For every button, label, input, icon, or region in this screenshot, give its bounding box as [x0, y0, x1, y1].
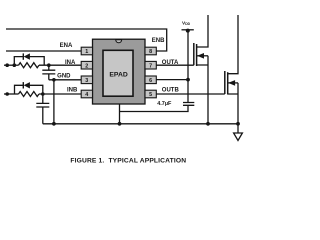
diode INB clamp triangle	[24, 82, 30, 88]
svg-text:GND: GND	[57, 73, 71, 79]
node GND drop junction	[52, 78, 56, 82]
svg-text:4.7µF: 4.7µF	[157, 101, 172, 107]
transistor Q1 body lead	[197, 55, 208, 57]
svg-text:OUTB: OUTB	[162, 88, 180, 94]
svg-text:ENA: ENA	[60, 43, 73, 49]
node VDD terminal blob	[186, 29, 190, 33]
transistor Q1 source	[197, 56, 208, 124]
svg-text:3: 3	[85, 78, 88, 84]
pin 8	[145, 47, 156, 55]
pin 6	[145, 76, 156, 84]
transistor Q2 source	[228, 83, 238, 124]
svg-text:4: 4	[85, 92, 88, 98]
op-amp U1 driver IC body	[93, 39, 146, 104]
svg-text:ENB: ENB	[152, 38, 165, 44]
transistor Q1 upper NMOS gate	[193, 43, 195, 65]
node INB cap junction	[41, 92, 45, 96]
IC exposed pad EPAD	[103, 50, 133, 96]
diode INA clamp triangle	[24, 53, 30, 59]
wire VDD riser	[187, 30, 189, 79]
svg-text:VDD: VDD	[182, 20, 191, 26]
capacitor INA filter	[42, 65, 55, 80]
transistor Q1 body arrow	[197, 53, 204, 59]
node INB terminal	[5, 92, 9, 96]
transistor Q2 drain	[228, 15, 238, 74]
wire INA row right to pin 2	[39, 64, 81, 66]
wire EPAD drop	[119, 104, 121, 124]
wire INA diode branch	[14, 57, 44, 66]
wire GND pin 3	[49, 79, 81, 81]
ground symbol lead	[237, 124, 239, 133]
pin 4	[81, 90, 92, 98]
pin 2	[81, 61, 92, 69]
diode INA clamp cathode bar	[22, 53, 24, 59]
svg-text:INA: INA	[65, 60, 76, 66]
wire ENA input	[6, 50, 81, 52]
pin 3	[81, 76, 92, 84]
svg-text:EPAD: EPAD	[109, 71, 127, 78]
pin 1	[81, 47, 92, 55]
capacitor INB filter	[36, 94, 49, 124]
wire VDD pin 6	[156, 79, 188, 81]
ground	[234, 133, 243, 141]
svg-text:FIGURE 1. TYPICAL APPLICATION: FIGURE 1. TYPICAL APPLICATION	[70, 157, 186, 164]
supply terminal VDD	[182, 29, 194, 31]
wire GND drop to bus	[53, 80, 55, 124]
wire OUTA pin 7	[156, 64, 194, 66]
transistor Q1 channel bar	[196, 44, 198, 66]
node bus ground junction	[236, 122, 240, 126]
transistor Q2 channel bar	[227, 72, 229, 94]
node INA cap junction	[47, 63, 51, 67]
wire OUTB pin 5	[156, 93, 225, 95]
capacitor C1 4.7uF	[183, 80, 194, 106]
node bus EPAD junction	[118, 122, 122, 126]
pin 7	[145, 61, 156, 69]
node bus GND junction	[52, 122, 56, 126]
wire INB row left	[4, 93, 19, 95]
svg-text:8: 8	[149, 49, 152, 55]
transistor Q2 body lead	[228, 82, 238, 84]
wire INA row left	[4, 64, 19, 66]
pin 5	[145, 90, 156, 98]
svg-text:5: 5	[149, 92, 152, 98]
svg-text:6: 6	[149, 78, 152, 84]
svg-text:7: 7	[149, 63, 152, 69]
wire cap ground return	[120, 105, 189, 111]
node VDD junction	[186, 78, 190, 82]
wire INB row right to pin 4	[39, 93, 81, 95]
node bus Q1 source junction	[206, 122, 210, 126]
svg-text:2: 2	[85, 63, 88, 69]
svg-text:OUTA: OUTA	[162, 60, 179, 66]
wire ground bus	[43, 123, 238, 125]
diode INB clamp cathode bar	[22, 82, 24, 88]
IC pin1 index notch	[116, 40, 122, 43]
svg-text:1: 1	[85, 49, 88, 55]
node INA terminal	[5, 63, 9, 67]
wire INB diode branch	[15, 85, 43, 94]
wire ENA-ENB tie rail	[6, 29, 167, 51]
transistor Q1 drain	[197, 15, 208, 47]
transistor Q2 lower NMOS gate	[224, 71, 226, 94]
node INA diode tap	[13, 63, 17, 67]
resistor INA series	[19, 63, 39, 68]
transistor Q2 body arrow	[228, 80, 235, 86]
resistor INB series	[19, 92, 39, 97]
svg-text:INB: INB	[67, 88, 78, 94]
